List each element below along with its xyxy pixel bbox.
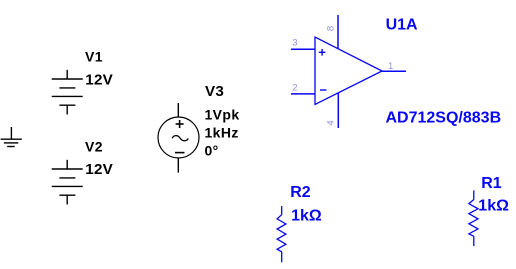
- svg-text:U1A: U1A: [386, 16, 418, 33]
- wire pin 1 output: [382, 70, 406, 72]
- svg-text:V2: V2: [85, 139, 103, 155]
- svg-text:V3: V3: [205, 83, 224, 100]
- svg-text:12V: 12V: [85, 161, 113, 178]
- op-amp minus input mark: [320, 89, 326, 91]
- svg-text:8: 8: [326, 26, 337, 31]
- battery V2: [52, 160, 83, 205]
- svg-text:0°: 0°: [205, 143, 219, 159]
- svg-text:1kΩ: 1kΩ: [478, 197, 509, 214]
- svg-text:1Vpk: 1Vpk: [205, 107, 240, 123]
- wire pin 2 inverting input: [291, 93, 315, 95]
- wire pin 3 non-inverting input: [291, 48, 315, 50]
- ac source V3: [158, 103, 199, 173]
- svg-text:1kΩ: 1kΩ: [291, 207, 322, 224]
- battery V1: [52, 70, 83, 115]
- svg-text:12V: 12V: [85, 72, 113, 89]
- wire pin 8 positive supply: [337, 15, 339, 49]
- svg-text:R2: R2: [290, 184, 311, 201]
- resistor R1: [469, 190, 478, 246]
- svg-text:1kHz: 1kHz: [205, 125, 239, 141]
- wire pin 4 negative supply: [337, 93, 339, 128]
- svg-text:4: 4: [326, 120, 337, 125]
- op-amp plus input mark: [319, 51, 326, 53]
- ground: [1, 127, 22, 147]
- resistor R2: [277, 206, 286, 262]
- svg-text:R1: R1: [481, 175, 502, 192]
- svg-text:1: 1: [388, 61, 393, 72]
- svg-text:3: 3: [292, 38, 297, 49]
- svg-text:V1: V1: [85, 49, 103, 65]
- svg-text:2: 2: [292, 82, 297, 93]
- svg-text:AD712SQ/883B: AD712SQ/883B: [386, 110, 502, 127]
- op-amp U1A triangle: [291, 15, 406, 128]
